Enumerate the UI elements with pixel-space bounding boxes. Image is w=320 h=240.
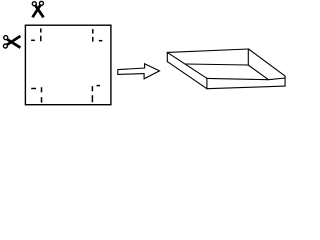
right corner vertical edge xyxy=(284,76,286,86)
scissors left xyxy=(3,36,20,48)
arrow xyxy=(118,64,160,79)
bottom front-left edge xyxy=(167,62,207,89)
left corner vertical edge xyxy=(166,52,168,61)
outer rim back-right edge xyxy=(249,49,286,76)
fold mark top-right horizontal dash xyxy=(99,40,103,42)
inner wall base back-left xyxy=(186,64,248,65)
fold mark bottom-left horizontal dash xyxy=(31,88,36,90)
outer rim front-left edge xyxy=(167,52,207,78)
fold mark top-right vertical dashes xyxy=(92,29,94,41)
square paper outline xyxy=(25,25,111,105)
outer rim back-left edge xyxy=(167,49,248,52)
fold mark bottom-right horizontal dash xyxy=(97,85,101,87)
front rim edge xyxy=(207,78,285,80)
inner corner vertical edge xyxy=(247,49,249,65)
fold mark bottom-left vertical dashes xyxy=(41,87,43,102)
front corner vertical edge xyxy=(206,78,208,88)
scissors top xyxy=(32,1,43,17)
box tray xyxy=(167,49,285,89)
fold mark top-left vertical dashes xyxy=(40,28,42,41)
inner wall base back-right xyxy=(248,65,268,80)
fold mark top-left horizontal dash xyxy=(31,39,35,41)
fold mark bottom-right vertical dashes xyxy=(91,86,93,102)
bottom front-right edge xyxy=(207,86,285,89)
